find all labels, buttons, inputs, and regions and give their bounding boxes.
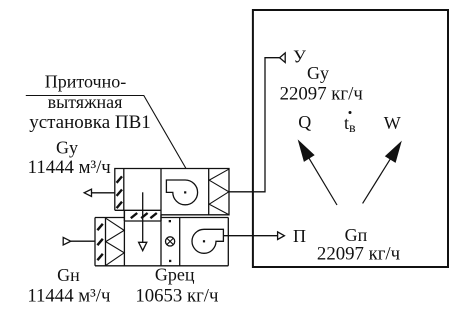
fan B1 (exhaust) [166,180,197,205]
svg-text:Gн: Gн [57,265,80,285]
filter F1 (exhaust) hatch marks [117,176,122,208]
svg-text:Gрец: Gрец [155,265,195,285]
heater (circle with cross) [166,237,175,246]
heater node dot bottom [169,260,171,262]
heat flow arrow Q [309,158,337,205]
outdoor air intake arrow [71,240,95,242]
heater node dot top [169,220,171,222]
svg-text:установка ПВ1: установка ПВ1 [29,112,151,133]
svg-text:вытяжная: вытяжная [48,92,123,112]
fan B1 hub dot [184,191,186,193]
fan B2 hub dot [203,240,205,242]
svg-text:Приточно-: Приточно- [45,72,126,92]
exhaust discharge arrow (left) [92,192,115,194]
filter F2 (supply) hatch marks [97,224,102,260]
AHU top row casing [115,169,229,266]
svg-text:Gп: Gп [345,225,368,245]
svg-text:11444 м³/ч: 11444 м³/ч [28,157,111,178]
svg-text:W: W [384,113,401,133]
AHU bottom row casing [95,210,228,265]
recirculation arrow [142,192,144,242]
svg-text:22097 кг/ч: 22097 кг/ч [317,244,400,265]
room boundary [253,10,448,267]
callout leader line [26,96,186,169]
outdoor air damper zigzag [106,218,125,265]
damper (exhaust outlet) zigzag [209,169,229,214]
svg-text:10653 кг/ч: 10653 кг/ч [135,286,218,307]
moisture flow arrow W [363,159,391,204]
svg-text:У: У [293,47,306,67]
svg-text:Gу: Gу [307,63,329,83]
svg-text:Gу: Gу [56,138,78,158]
recirculation hatch strip [124,210,161,221]
svg-text:22097 кг/ч: 22097 кг/ч [280,84,363,105]
dot over tв [349,111,352,114]
svg-text:П: П [293,226,306,246]
supply duct to room (П) [223,235,277,237]
svg-text:11444 м³/ч: 11444 м³/ч [27,285,110,306]
svg-text:Q: Q [298,112,311,132]
fan B2 (supply) [192,229,223,253]
exhaust duct to room (У) [229,58,280,192]
